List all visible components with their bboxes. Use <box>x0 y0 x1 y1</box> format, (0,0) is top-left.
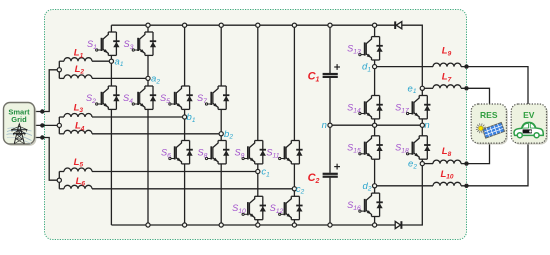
inductor L2 <box>64 75 92 78</box>
junction bottom bus 3 <box>219 223 223 227</box>
transistor S11 <box>279 141 303 164</box>
terminal L8 out <box>464 161 468 165</box>
node a2 <box>146 76 150 80</box>
inductor L10 <box>433 182 461 186</box>
inductor L9 <box>433 63 461 66</box>
diode D-top (on top bus) <box>395 21 402 29</box>
transistor S9 <box>242 141 266 164</box>
wire leg3 S6 to bottom bus <box>184 164 186 225</box>
Smart Grid block <box>4 103 37 146</box>
transistor S14 <box>359 96 383 119</box>
wire leg2 S3 to node a2 <box>147 55 149 78</box>
wire e1 to L7 <box>422 87 433 89</box>
label L7 <box>442 72 452 84</box>
wire bottom DC bus <box>111 224 395 226</box>
junction bottom bus 7 <box>373 223 377 227</box>
junction top bus 4 <box>256 23 260 27</box>
label S4 <box>123 93 133 105</box>
label S7 <box>197 93 207 105</box>
wire S14 to n-wire <box>374 119 376 125</box>
wire L10 to EV <box>461 143 528 186</box>
junction L3/L4 feed <box>57 123 61 127</box>
wire L1/L2 split <box>58 61 60 78</box>
transistor S13 <box>359 37 383 60</box>
wire n-wire to S18 <box>421 125 423 136</box>
wire leg1 S2 to bottom bus <box>110 109 112 225</box>
label S13 <box>347 43 361 55</box>
wire grid phase1 feed <box>35 70 60 112</box>
label node b2 <box>224 129 233 141</box>
label node a1 <box>115 56 124 68</box>
wire leg5 S9 to node c1 <box>257 164 259 172</box>
label L1 <box>74 48 84 60</box>
transistor S2 <box>96 86 120 109</box>
transistor S6 <box>169 141 193 164</box>
wire cap bus top <box>329 25 331 73</box>
wire L2 to node a2 <box>92 77 148 79</box>
svg-text:EV: EV <box>523 110 535 120</box>
label S11 <box>266 147 279 159</box>
transistor S7 <box>205 86 229 109</box>
wire L3/L4 split <box>58 117 60 134</box>
node c2 <box>292 187 296 191</box>
transistor S15 <box>359 136 383 159</box>
wire L2 lead-in <box>59 77 64 79</box>
wire d2 to L10 <box>375 185 433 187</box>
terminal grid phase1 <box>40 109 44 113</box>
wire d1 to L9 <box>375 66 433 68</box>
terminal grid phase2 <box>40 123 44 127</box>
RES block <box>471 104 508 145</box>
label node d2 <box>363 181 372 193</box>
wire L6 to node c2 <box>92 188 294 190</box>
label C2 <box>308 172 320 185</box>
wire bottom bus to rail <box>401 164 422 225</box>
wire leg3 bus to S5 <box>184 25 186 86</box>
wire L5/L6 split <box>58 172 60 189</box>
label L3 <box>74 102 84 114</box>
label node n (left) <box>322 120 327 131</box>
label node e2 <box>408 159 417 171</box>
terminal L9 out <box>464 64 468 68</box>
transistor S16 <box>359 193 383 216</box>
wire leg5 bus to S9 <box>257 25 259 140</box>
wire d1 to S14 <box>374 67 376 96</box>
junction top bus 7 <box>373 23 377 27</box>
junction L5/L6 feed <box>57 178 61 182</box>
wire L9 to EV <box>461 67 528 104</box>
junction top bus 6 <box>328 23 332 27</box>
wire n-wire to S15 <box>374 125 376 136</box>
wire leg1 a1 to S2 <box>110 61 112 86</box>
transistor S3 <box>132 32 156 55</box>
label node b1 <box>187 112 196 124</box>
label S5 <box>160 93 170 105</box>
wire leg5 S10 to bottom bus <box>257 220 259 225</box>
wire top DC bus <box>111 24 395 26</box>
wire leg5 c1 to S10 <box>257 172 259 197</box>
transistor S17 <box>407 96 431 119</box>
label L6 <box>76 176 86 188</box>
wire L1 lead-in <box>59 60 64 62</box>
label S10 <box>232 203 246 215</box>
label node e1 <box>408 83 417 95</box>
wire L4 to node b2 <box>92 133 221 135</box>
node b2 <box>219 132 223 136</box>
wire L5 to node c1 <box>92 171 258 173</box>
wire S18 to e2 <box>421 159 423 163</box>
transistor S1 <box>96 32 120 55</box>
wire node n to C2 <box>329 125 331 173</box>
diode D-bot (on bottom bus) <box>395 221 401 229</box>
wire L8 to RES <box>461 143 490 164</box>
label L10 <box>440 169 453 181</box>
label node n (right) <box>424 120 429 131</box>
node n left <box>328 123 332 127</box>
label L9 <box>442 46 452 58</box>
terminal L10 out <box>464 184 468 188</box>
transistor S10 <box>242 196 266 219</box>
wire leg2 S4 to bottom bus <box>147 109 149 225</box>
terminal grid phase3 <box>40 135 44 139</box>
EV car icon <box>514 122 543 137</box>
label S12 <box>270 203 284 215</box>
inductor L8 <box>433 160 461 163</box>
wire S13 to node d1 <box>374 60 376 67</box>
label L8 <box>442 146 452 158</box>
node e1 <box>420 86 424 90</box>
wire leg3 b1 to S6 <box>184 117 186 141</box>
junction bottom bus 2 <box>183 223 187 227</box>
wire leg2 a2 to S4 <box>147 78 149 86</box>
node b1 <box>183 115 187 119</box>
wire L7 to RES <box>461 88 490 104</box>
transistor S4 <box>132 86 156 109</box>
label S15 <box>347 143 361 155</box>
wire grid phase3 feed <box>35 138 60 181</box>
label S18 <box>395 143 409 155</box>
wire C2 to bottom bus <box>329 178 331 225</box>
wire leg2 bus to S3 <box>147 25 149 32</box>
junction bottom bus 1 <box>146 223 150 227</box>
inductor L4 <box>64 130 92 134</box>
wire S16 to bottom bus <box>374 217 376 226</box>
label S1 <box>87 39 97 51</box>
wire leg4 bus to S7 <box>220 25 222 86</box>
wire node n horizontal <box>330 124 422 126</box>
node a1 <box>109 59 113 63</box>
node d2 <box>373 184 377 188</box>
wire leg6 S12 to bottom bus <box>293 220 295 225</box>
wire grid phase2 feed <box>35 124 60 126</box>
wire L3 lead-in <box>59 116 64 118</box>
transistor S12 <box>279 196 303 219</box>
label L5 <box>74 157 84 169</box>
wire d2 to S16 <box>374 186 376 193</box>
label L4 <box>75 121 85 133</box>
transistor S8 <box>205 141 229 164</box>
label S8 <box>198 147 208 159</box>
capacitor C1 <box>323 64 340 77</box>
label S9 <box>235 147 245 159</box>
svg-text:n: n <box>424 120 429 131</box>
node d1 <box>373 65 377 69</box>
wire e1 to S17 <box>421 88 423 95</box>
Smart Grid tower icon <box>7 124 33 144</box>
junction top bus 3 <box>219 23 223 27</box>
wire leg1 S1 to node a1 <box>110 55 112 61</box>
label node c2 <box>296 184 305 196</box>
inductor L1 <box>64 58 92 61</box>
wire S13 top lead <box>374 25 376 36</box>
label node a2 <box>151 74 160 86</box>
junction top bus 5 <box>292 23 296 27</box>
wire top bus after diode <box>402 25 423 88</box>
label S3 <box>124 39 134 51</box>
inductor L3 <box>64 114 92 117</box>
RES solar icon <box>476 122 505 138</box>
wire L1 to node a1 <box>92 60 111 62</box>
label node c1 <box>261 167 270 179</box>
wire L5 lead-in <box>59 171 64 173</box>
wire leg1 S1 top to bus <box>110 25 112 32</box>
label node d1 <box>362 62 371 74</box>
wire leg4 S8 to bottom bus <box>220 164 222 225</box>
junction bottom bus 5 <box>292 223 296 227</box>
transistor S5 <box>169 86 193 109</box>
junction L1/L2 feed <box>57 68 61 72</box>
svg-text:n: n <box>322 120 327 131</box>
junction n mid <box>373 123 377 127</box>
wire S15 to node d2 <box>374 159 376 186</box>
label S16 <box>347 200 361 212</box>
wire leg4 b2 to S8 <box>220 134 222 141</box>
label C1 <box>308 71 320 84</box>
wire L6 lead-in <box>59 188 64 190</box>
capacitor C2 <box>323 164 340 177</box>
label S6 <box>161 147 171 159</box>
node c1 <box>256 169 260 173</box>
wire L3 to node b1 <box>92 116 185 118</box>
terminal L7 out <box>464 86 468 90</box>
wire S17 to n-wire <box>421 119 423 125</box>
wire leg6 c2 to S12 <box>293 189 295 197</box>
EV block <box>511 104 548 145</box>
node n right <box>420 123 424 127</box>
wire leg3 S5 to node b1 <box>184 109 186 117</box>
label L2 <box>75 64 85 76</box>
wire cap C1 to node n <box>329 78 331 125</box>
junction bottom bus 6 <box>328 223 332 227</box>
label S14 <box>347 102 361 114</box>
wire L4 lead-in <box>59 133 64 135</box>
node e2 <box>420 162 424 166</box>
wire leg6 bus to S11 <box>293 25 295 140</box>
wire leg6 S11 to node c2 <box>293 164 295 189</box>
junction bottom bus 4 <box>256 223 260 227</box>
label S17 <box>395 102 409 114</box>
junction top bus 1 <box>146 23 150 27</box>
inductor L5 <box>64 168 92 171</box>
inductor L7 <box>433 85 461 89</box>
inductor L6 <box>64 185 92 189</box>
svg-text:RES: RES <box>480 110 498 120</box>
label S2 <box>86 93 96 105</box>
junction top bus 2 <box>183 23 187 27</box>
transistor S18 <box>407 136 431 159</box>
wire e2 to L8 <box>422 163 433 165</box>
converter boundary (dashed green) <box>45 10 467 240</box>
wire leg4 S7 to node b2 <box>220 109 222 133</box>
